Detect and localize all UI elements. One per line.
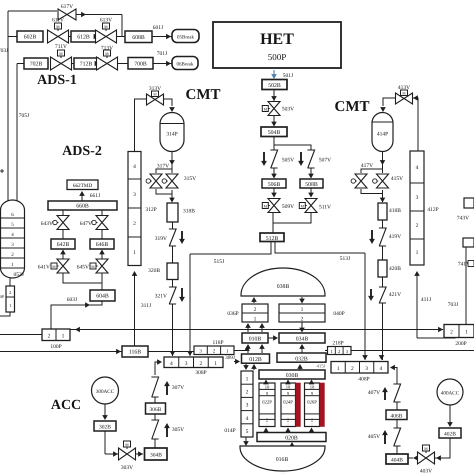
svg-text:ADS-1: ADS-1 [37, 73, 77, 88]
svg-text:512B: 512B [266, 236, 279, 242]
svg-text:1: 1 [133, 250, 136, 256]
svg-text:053J: 053J [14, 272, 25, 278]
vessel 400ACC [437, 379, 463, 405]
box 646B [90, 239, 114, 249]
node 100P hot leg 1 [42, 329, 70, 341]
wire ACC-1 riser into 308P [155, 362, 160, 375]
box 420B [378, 260, 387, 277]
wire arrows 012B to 010B [247, 345, 249, 353]
wire 305V-304B [154, 439, 156, 448]
svg-text:034B: 034B [296, 337, 309, 343]
node 218P [328, 347, 352, 355]
wire ADS-1 line 705J vertical [16, 64, 18, 201]
box 020B [257, 433, 326, 442]
wire 303V-304B arrow [136, 453, 140, 455]
valve 303V [124, 441, 131, 447]
stack 312P [128, 152, 141, 266]
check valve 421V [379, 287, 386, 303]
wire 419V-420B [382, 246, 384, 260]
svg-text:421V: 421V [389, 292, 401, 298]
box 741V stub at right edge [463, 238, 474, 247]
svg-text:305V: 305V [172, 427, 184, 433]
wire 502B-503V with arrow [273, 90, 275, 102]
svg-text:513J: 513J [340, 256, 351, 262]
wire row-2 stub from 703J line [8, 36, 17, 38]
wire 512B discharge right 513J [275, 242, 365, 254]
svg-text:311J: 311J [141, 303, 152, 309]
box 504B [261, 127, 287, 137]
svg-text:304B: 304B [150, 453, 162, 459]
vessel 300ACC [92, 377, 119, 404]
wire 300ACC to 302B with arrow [104, 404, 106, 419]
wire 512B discharge left 515J [190, 242, 271, 255]
svg-text:3: 3 [185, 361, 188, 367]
vessel dome 038B [241, 268, 325, 296]
svg-text:030B: 030B [286, 373, 299, 379]
svg-text:660B: 660B [76, 204, 89, 210]
svg-text:1: 1 [301, 307, 304, 313]
wire 508B-511V with arrow [310, 188, 312, 197]
box 612B [71, 31, 96, 42]
svg-text:4: 4 [416, 165, 419, 171]
svg-text:711V: 711V [55, 44, 67, 50]
svg-text:400ACC: 400ACC [441, 391, 460, 397]
flow arrow 421V down [370, 289, 372, 299]
svg-text:662TMD: 662TMD [73, 183, 93, 189]
svg-text:319V: 319V [155, 236, 167, 242]
box 502B [262, 80, 287, 90]
wire 412P top to 413V with arrow [413, 98, 419, 151]
check valve 407V [393, 384, 400, 402]
svg-text:701J: 701J [157, 51, 168, 57]
svg-text:321V: 321V [155, 294, 167, 300]
flow arrow 319V down [181, 231, 183, 242]
wire arrow down from dome [301, 297, 303, 302]
node 040P [279, 304, 325, 322]
wire 713V-700B [118, 63, 129, 65]
svg-text:418B: 418B [389, 208, 401, 214]
vessel 414P [372, 113, 393, 152]
wire 014P down into lower dome [245, 437, 247, 445]
svg-text:ADS-2: ADS-2 [62, 144, 102, 159]
box 012B [242, 354, 270, 363]
svg-text:4: 4 [246, 416, 249, 422]
box 702B [24, 58, 48, 69]
svg-text:645V: 645V [77, 265, 89, 271]
wire 643V branch [62, 210, 64, 216]
svg-text:040P: 040P [333, 311, 344, 317]
svg-text:702B: 702B [30, 62, 43, 68]
svg-text:2: 2 [450, 330, 453, 336]
wire 403V-404B arrow [435, 457, 442, 459]
svg-text:10: 10 [265, 385, 270, 390]
svg-text:1: 1 [214, 361, 217, 367]
svg-text:500P: 500P [268, 52, 287, 62]
wire 506B-509V with arrow [273, 188, 275, 197]
svg-text:1: 1 [465, 330, 468, 336]
svg-text:118P: 118P [212, 340, 223, 346]
svg-text:0P: 0P [0, 294, 5, 299]
node 200P cold leg 2 [444, 325, 474, 338]
node 408P [331, 362, 388, 374]
wire row-3 stub [17, 63, 24, 65]
core channel 022P [259, 383, 275, 427]
svg-text:1: 1 [9, 303, 11, 308]
box 418B [378, 203, 387, 220]
svg-text:419V: 419V [389, 234, 401, 240]
wire 307V-306B [154, 397, 156, 403]
wire 611V-612B [69, 36, 73, 38]
svg-text:407V: 407V [368, 390, 380, 396]
svg-text:646B: 646B [96, 242, 109, 248]
svg-text:1: 1 [416, 250, 419, 256]
check valve 419V [379, 228, 386, 246]
svg-text:641V: 641V [38, 265, 50, 271]
vessel 314P [160, 113, 184, 152]
label HET [213, 22, 341, 68]
svg-text:412P: 412P [427, 207, 438, 213]
svg-text:617V: 617V [61, 4, 73, 10]
svg-text:024P: 024P [283, 400, 293, 406]
wire CMT outlet arrow [171, 152, 173, 166]
box 030B [259, 370, 325, 379]
svg-text:2: 2 [48, 334, 51, 340]
wire arrow 308P to 012B, label 309J [234, 361, 239, 363]
check valve 305V [151, 420, 158, 439]
box 302B [94, 421, 116, 431]
svg-text:515J: 515J [214, 259, 225, 265]
wire after 617V with arrow [76, 14, 122, 16]
svg-text:010B: 010B [249, 337, 262, 343]
wire arrow 012B down to 014P [245, 364, 247, 370]
red control rod bar 1 [296, 383, 301, 427]
check valve 321V [169, 287, 176, 304]
wire CMT-2 outlet arrow [382, 152, 384, 166]
flow arrow 307V up [166, 383, 168, 395]
svg-text:2: 2 [246, 390, 249, 396]
svg-text:303V: 303V [121, 465, 133, 471]
svg-text:1: 1 [337, 366, 340, 372]
wire 612B-613V with arrow [96, 36, 98, 38]
sink 05Break [172, 30, 199, 43]
wire arrows 010B to 036P [247, 324, 249, 332]
box 034B [279, 333, 325, 343]
wire 413V to CMT vessel with arrow [383, 98, 396, 106]
wire arrow 032B to 034B [301, 345, 303, 353]
svg-text:10: 10 [310, 385, 315, 390]
wire CMT bypass loop [156, 166, 172, 173]
wire 411J bottom hook to 200P [417, 337, 455, 340]
svg-text:2: 2 [351, 366, 354, 372]
svg-text:309J: 309J [225, 355, 235, 361]
wire CMT-2 bypass loop [361, 166, 383, 173]
check valve 405V [393, 428, 400, 446]
svg-text:2: 2 [9, 290, 11, 295]
svg-text:700B: 700B [134, 61, 147, 67]
svg-text:661J: 661J [90, 193, 101, 199]
svg-text:308P: 308P [195, 370, 206, 376]
svg-text:415V: 415V [391, 176, 403, 182]
wire arrows channels to 030B [265, 381, 267, 383]
svg-text:315V: 315V [184, 176, 196, 182]
box 743V stub at right edge [464, 198, 474, 208]
svg-text:022P: 022P [262, 400, 272, 406]
wire 603J from hot leg to 604B [51, 301, 102, 329]
wire hot leg long line A with arrow into 100P [70, 329, 443, 331]
svg-text:CMT: CMT [186, 87, 221, 103]
flow arrow 407V up [384, 389, 386, 400]
wire 660B to 662TMD with arrow, label 661J [81, 192, 83, 201]
wire arrows 020B to channels [265, 429, 267, 433]
svg-text:032B: 032B [295, 357, 308, 363]
svg-text:601J: 601J [153, 25, 164, 31]
box 608B [125, 31, 152, 43]
svg-text:4: 4 [170, 361, 173, 367]
svg-text:404B: 404B [391, 458, 403, 464]
wire 402B down to 403V [441, 438, 450, 458]
junction mark at left edge [0, 170, 4, 172]
svg-text:743V: 743V [457, 216, 469, 222]
svg-text:2: 2 [200, 361, 203, 367]
svg-text:2: 2 [133, 221, 136, 227]
svg-text:602B: 602B [24, 35, 37, 41]
svg-text:504B: 504B [268, 130, 281, 136]
wire arrow up into 012B [253, 365, 255, 370]
svg-text:300ACC: 300ACC [96, 389, 115, 395]
svg-text:5: 5 [246, 429, 249, 435]
wire 643V-642B [62, 230, 64, 239]
svg-text:2: 2 [416, 223, 419, 229]
svg-text:705J: 705J [19, 113, 30, 119]
flow arrow 405V up [384, 432, 386, 444]
svg-text:501J: 501J [283, 73, 294, 79]
wire 505V-506B with arrow [273, 168, 275, 178]
wire header down to 604B [101, 283, 103, 290]
valve 509V [268, 199, 280, 213]
svg-text:⋮: ⋮ [310, 423, 314, 427]
svg-text:10: 10 [286, 385, 291, 390]
svg-text:06Break: 06Break [177, 61, 194, 67]
wire arrow up into dome [253, 298, 255, 303]
svg-text:318B: 318B [183, 209, 195, 215]
svg-text:408P: 408P [358, 377, 369, 383]
svg-text:507V: 507V [319, 158, 331, 164]
svg-text:306B: 306B [150, 407, 162, 413]
wire 647V-646B [101, 230, 103, 239]
wire ADS-1 617V top line [8, 10, 57, 12]
svg-text:016B: 016B [276, 457, 289, 463]
box 604B [90, 290, 115, 301]
svg-text:⋮: ⋮ [286, 423, 290, 427]
svg-text:307V: 307V [172, 385, 184, 391]
svg-text:026P: 026P [307, 400, 317, 406]
svg-text:402B: 402B [444, 432, 456, 438]
node 308P [164, 357, 223, 368]
vessel lower dome 016B [240, 446, 325, 471]
box 642B [51, 239, 75, 249]
svg-text:3: 3 [133, 192, 136, 198]
svg-text:406B: 406B [391, 414, 403, 420]
svg-text:038B: 038B [277, 284, 290, 290]
svg-text:502B: 502B [268, 83, 281, 89]
wire ACC-2 riser into 408P [393, 368, 397, 385]
flow arrow 505V down [263, 152, 265, 164]
svg-text:642B: 642B [57, 242, 70, 248]
svg-text:506B: 506B [268, 182, 281, 188]
wire 318B-319V [172, 222, 174, 229]
wire PRHR line down right edge, label 703J [465, 247, 467, 325]
wire ADS-2 merge header [63, 274, 102, 284]
wire 407V-406B [396, 402, 398, 410]
wire 313V to CMT vessel with arrow [164, 99, 173, 106]
svg-text:604B: 604B [96, 294, 109, 300]
svg-text:036P: 036P [227, 311, 238, 317]
svg-text:511V: 511V [319, 205, 331, 211]
wire arrow 010B to 034B [268, 337, 277, 339]
svg-text:417V: 417V [361, 163, 373, 169]
wire 418B-419V [382, 220, 384, 228]
core channel 024P [281, 383, 296, 427]
svg-text:4: 4 [133, 164, 136, 170]
svg-text:012B: 012B [249, 357, 262, 363]
sink 662TMD [67, 180, 98, 190]
svg-text:612B: 612B [77, 35, 90, 41]
svg-text:703J: 703J [0, 48, 9, 54]
svg-text:020B: 020B [285, 436, 298, 442]
svg-text:100P: 100P [50, 344, 61, 350]
svg-text:411J: 411J [421, 297, 432, 303]
flow arrow 321V down [181, 288, 183, 300]
svg-text:HET: HET [260, 31, 294, 48]
wire arrow into 200P [438, 327, 443, 333]
svg-text:ACC: ACC [51, 398, 81, 413]
valve 511V [305, 199, 317, 213]
sink 06Break [172, 57, 198, 70]
svg-text:1: 1 [62, 334, 65, 340]
wire 711V-712B [72, 63, 75, 65]
svg-text:503V: 503V [282, 107, 294, 113]
wire 118P to 010B with arrow [234, 349, 247, 351]
wire 311J cold leg to 312P stack [134, 272, 136, 346]
stack 014P [241, 371, 253, 437]
wire 411J cold leg to 412P [416, 272, 418, 338]
flow arrow 305V up [166, 425, 168, 437]
svg-text:703J: 703J [448, 302, 459, 308]
core channel 026P [305, 383, 320, 427]
svg-text:218P: 218P [332, 341, 343, 347]
svg-text:2: 2 [301, 317, 304, 323]
box 508B [300, 179, 323, 188]
box 404B [386, 454, 408, 464]
svg-text:314P: 314P [166, 132, 177, 138]
stack 412P [410, 151, 424, 265]
svg-text:312P: 312P [145, 207, 156, 213]
flow arrow 507V down [300, 152, 302, 164]
box 320B [167, 263, 178, 280]
svg-text:CMT: CMT [335, 99, 370, 115]
svg-text:302B: 302B [99, 425, 111, 431]
svg-text:643V: 643V [41, 221, 53, 227]
wire 320B-321V [172, 280, 174, 288]
wire 050P outlet to left edge [0, 312, 10, 316]
box 660B [48, 201, 117, 210]
box 602B [17, 31, 43, 42]
svg-text:608B: 608B [132, 35, 145, 41]
svg-text:317V: 317V [157, 164, 169, 170]
valve 403V [423, 445, 430, 451]
wire arrow 040P to 034B [301, 322, 303, 331]
wire 647V branch [101, 210, 103, 216]
flow arrow 419V down [371, 230, 373, 242]
wire 405V-404B [396, 446, 398, 454]
check valve 505V [270, 150, 277, 168]
wire split header under 504B [274, 137, 311, 151]
svg-text:415J: 415J [316, 364, 325, 370]
svg-text:1: 1 [246, 376, 249, 382]
node 118P [194, 346, 234, 355]
wire 420B-421V [382, 277, 384, 287]
svg-text:414P: 414P [377, 132, 388, 138]
box 116B [122, 346, 148, 357]
wire hot-leg stub left edge [0, 334, 42, 336]
wire 302B down to 303V [104, 431, 106, 454]
wire 319V-320B [172, 246, 174, 263]
svg-text:505V: 505V [282, 158, 294, 164]
svg-text:4: 4 [379, 366, 382, 372]
svg-text:05Break: 05Break [177, 34, 194, 40]
box 712B [74, 58, 98, 69]
svg-text:3: 3 [365, 366, 368, 372]
svg-text:320B: 320B [148, 268, 160, 274]
wire 501J blue arrow [273, 70, 275, 78]
svg-text:405V: 405V [368, 434, 380, 440]
vessel pressurizer [1, 200, 25, 278]
svg-text:014P: 014P [224, 428, 235, 434]
wire 406B-405V [396, 420, 398, 429]
svg-text:3: 3 [416, 195, 419, 201]
wire arrow 030B to 032B [299, 365, 301, 370]
valve 503V [268, 102, 280, 116]
wire corner into row 602B [121, 15, 123, 37]
svg-text:712B: 712B [80, 62, 93, 68]
stack 050P [6, 286, 15, 312]
box 406B [386, 410, 407, 420]
wire into 418B with arrow [382, 194, 384, 203]
wire into 318B with arrow [171, 194, 173, 202]
svg-text:509V: 509V [282, 204, 294, 210]
svg-text:200P: 200P [455, 341, 466, 347]
wire 312P top to 313V [135, 99, 148, 152]
wire arrow into 303V [105, 453, 113, 455]
box 506B [262, 179, 286, 188]
wire 613V-608B [117, 36, 126, 38]
wire 306B-305V [154, 414, 156, 420]
box 010B [242, 333, 268, 343]
check valve 319V [169, 229, 176, 246]
wire 712B-713V with arrow [98, 63, 100, 65]
box 306B [146, 403, 166, 414]
check valve 307V [151, 377, 158, 397]
wire 513J drop into 408P cell 3 [364, 253, 366, 360]
box 318B [167, 203, 178, 222]
box 512B [260, 233, 284, 242]
wire 053J from pressurizer bottom [9, 278, 11, 286]
box 304B [145, 448, 168, 460]
svg-text:508B: 508B [305, 182, 318, 188]
wire CMT-1 discharge into 308P cell 4 [172, 304, 174, 356]
wire 400ACC to 402B with arrow [449, 405, 451, 426]
svg-text:2: 2 [254, 307, 257, 313]
